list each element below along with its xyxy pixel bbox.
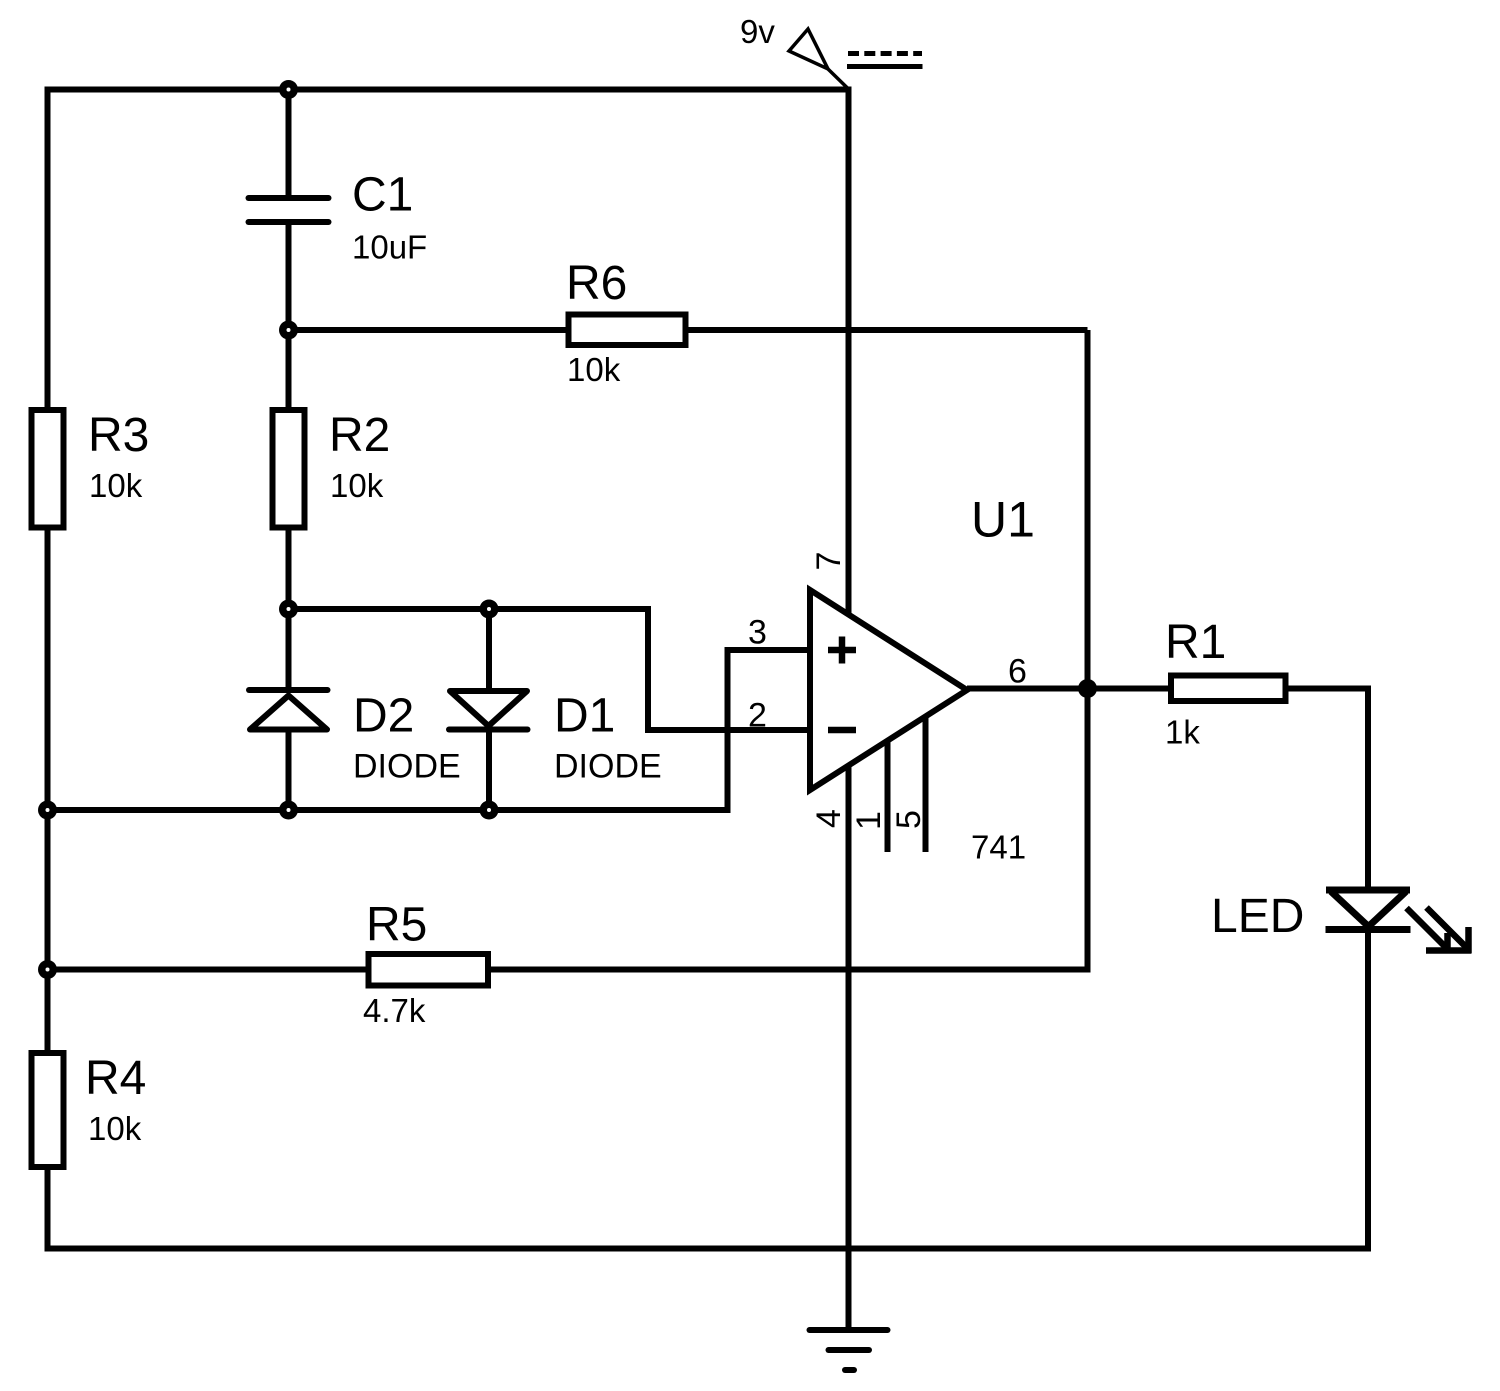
svg-text:10k: 10k: [330, 467, 384, 504]
svg-text:6: 6: [1008, 653, 1027, 691]
svg-text:3: 3: [748, 614, 767, 652]
svg-text:10k: 10k: [567, 351, 621, 388]
svg-text:9v: 9v: [740, 13, 775, 50]
svg-text:R6: R6: [566, 257, 627, 310]
svg-text:U1: U1: [971, 492, 1035, 548]
svg-text:10k: 10k: [88, 1110, 142, 1147]
svg-text:DIODE: DIODE: [353, 748, 461, 786]
svg-text:D1: D1: [554, 690, 615, 743]
svg-text:5: 5: [890, 810, 928, 829]
svg-text:7: 7: [810, 552, 848, 571]
svg-text:R3: R3: [88, 409, 149, 462]
svg-text:4.7k: 4.7k: [363, 992, 426, 1029]
svg-text:1k: 1k: [1165, 714, 1200, 751]
svg-text:R2: R2: [329, 409, 390, 462]
svg-text:R1: R1: [1165, 616, 1226, 669]
svg-text:4: 4: [810, 809, 848, 828]
svg-text:D2: D2: [353, 690, 414, 743]
svg-text:741: 741: [971, 829, 1026, 866]
svg-text:2: 2: [748, 697, 767, 735]
svg-text:DIODE: DIODE: [554, 748, 662, 786]
svg-text:R4: R4: [85, 1052, 146, 1105]
svg-text:1: 1: [850, 811, 888, 830]
svg-text:C1: C1: [352, 169, 413, 222]
svg-text:10uF: 10uF: [352, 229, 427, 266]
svg-text:R5: R5: [366, 899, 427, 952]
svg-text:10k: 10k: [89, 467, 143, 504]
svg-text:LED: LED: [1211, 890, 1304, 943]
